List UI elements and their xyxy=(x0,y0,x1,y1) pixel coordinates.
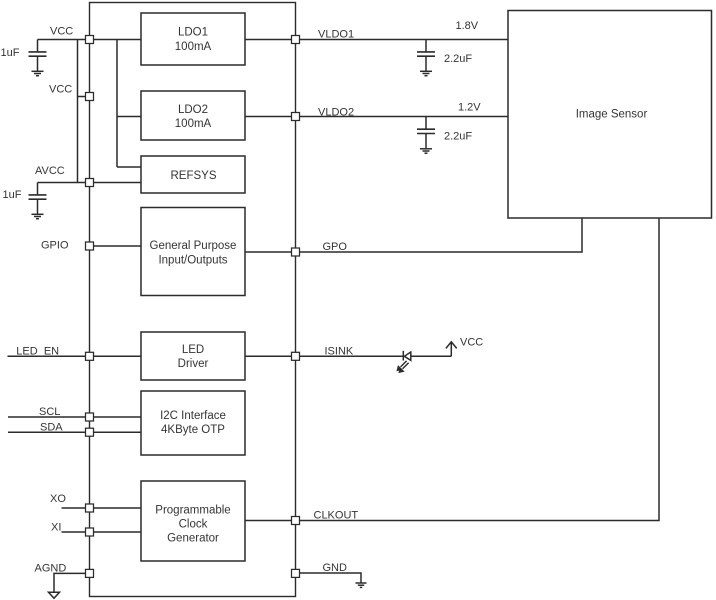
wire AVCC to REFSYS xyxy=(38,182,142,184)
svg-text:1uF: 1uF xyxy=(3,189,22,201)
block LED Driver xyxy=(141,332,245,380)
wire LED anode to VCC xyxy=(411,355,452,357)
net label GPIO xyxy=(41,240,69,252)
label GPIO block text xyxy=(150,240,237,267)
pin VCC2 xyxy=(86,93,94,101)
value label 1uF C1 xyxy=(1,47,20,59)
value label 1.8V xyxy=(456,20,479,32)
svg-text:GPO: GPO xyxy=(323,241,348,253)
svg-text:Clock: Clock xyxy=(179,519,208,531)
svg-text:GPIO: GPIO xyxy=(41,240,69,252)
svg-text:AGND: AGND xyxy=(35,562,67,574)
svg-text:1uF: 1uF xyxy=(1,47,20,59)
net label CLKOUT xyxy=(314,510,359,522)
svg-text:2.2uF: 2.2uF xyxy=(444,131,472,143)
value label 2.2uF C3 xyxy=(444,53,472,65)
block General Purpose Input/Outputs xyxy=(141,208,245,296)
wire VLDO1 net xyxy=(245,39,508,41)
svg-text:100mA: 100mA xyxy=(175,118,212,130)
pin SDA xyxy=(86,428,94,436)
svg-text:Input/Outputs: Input/Outputs xyxy=(158,255,227,267)
value label 1.2V xyxy=(458,102,481,114)
label REFSYS text xyxy=(170,170,216,182)
svg-text:4KByte OTP: 4KByte OTP xyxy=(161,424,225,436)
pin VLDO2 xyxy=(292,113,300,121)
capacitor C2 1uF on AVCC xyxy=(29,183,47,219)
net label AGND xyxy=(35,562,67,574)
pin GPIO xyxy=(86,242,94,250)
IC boundary U1 xyxy=(90,3,296,597)
block Image Sensor xyxy=(508,11,712,219)
pin VLDO1 xyxy=(292,36,300,44)
svg-text:2.2uF: 2.2uF xyxy=(444,53,472,65)
net label ISINK xyxy=(325,345,354,357)
net label SCL xyxy=(39,406,60,418)
svg-text:1.8V: 1.8V xyxy=(456,20,479,32)
ground arrow AGND xyxy=(49,592,60,598)
svg-text:XI: XI xyxy=(51,522,61,534)
capacitor C1 1uF on VCC xyxy=(29,40,47,76)
label Image Sensor text xyxy=(576,109,648,121)
value label 1uF C2 xyxy=(3,189,22,201)
svg-text:I2C Interface: I2C Interface xyxy=(160,410,226,422)
pin LED_EN xyxy=(86,352,94,360)
pin GPO xyxy=(292,248,300,256)
pin XI xyxy=(86,528,94,536)
wire SDA xyxy=(8,431,141,433)
wire VCC to LDO1 xyxy=(38,39,142,41)
block I2C Interface 4KByte OTP xyxy=(141,391,245,455)
svg-text:Image Sensor: Image Sensor xyxy=(576,109,648,121)
svg-text:VLDO2: VLDO2 xyxy=(318,106,354,118)
capacitor C3 2.2uF on VLDO1 xyxy=(417,40,435,76)
wire XO xyxy=(62,507,142,509)
pin XO xyxy=(86,504,94,512)
svg-text:VLDO1: VLDO1 xyxy=(318,29,354,41)
net label LED_EN xyxy=(16,345,59,357)
net label GPO xyxy=(323,241,348,253)
svg-text:General Purpose: General Purpose xyxy=(150,240,237,252)
net label SDA xyxy=(40,422,63,434)
value label 2.2uF C4 xyxy=(444,131,472,143)
wire ISINK to LED xyxy=(245,355,403,357)
ground symbol GND xyxy=(356,583,367,587)
net label XI xyxy=(51,522,61,534)
net label VCC xyxy=(50,26,73,38)
pin GND xyxy=(292,569,300,577)
svg-text:Driver: Driver xyxy=(178,358,209,370)
net label VLDO2 xyxy=(318,106,354,118)
svg-text:1.2V: 1.2V xyxy=(458,102,481,114)
power VCC arrow at LED xyxy=(446,342,457,357)
svg-text:LDO2: LDO2 xyxy=(178,104,208,116)
svg-text:LED: LED xyxy=(182,344,204,356)
wire XI xyxy=(62,531,142,533)
block REFSYS xyxy=(141,156,245,193)
svg-text:REFSYS: REFSYS xyxy=(170,170,216,182)
svg-text:VCC: VCC xyxy=(49,84,72,96)
pin CLKOUT xyxy=(292,517,300,525)
wire VLDO2 net xyxy=(245,116,508,118)
net label AVCC xyxy=(35,165,65,177)
svg-text:XO: XO xyxy=(50,493,66,505)
net label VCC at LED xyxy=(460,337,483,349)
svg-text:Generator: Generator xyxy=(167,533,219,545)
block LDO1 xyxy=(141,13,245,65)
wire VCC2 stub xyxy=(78,96,90,98)
net label GND xyxy=(323,562,348,574)
wire LED_EN xyxy=(8,355,142,357)
svg-text:SDA: SDA xyxy=(40,422,63,434)
wire GND xyxy=(296,573,362,583)
svg-text:VCC: VCC xyxy=(50,26,73,38)
pin AGND xyxy=(86,569,94,577)
wire GPO net xyxy=(245,218,582,252)
pin SCL xyxy=(86,413,94,421)
capacitor C4 2.2uF on VLDO2 xyxy=(417,117,435,154)
wire CLKOUT net xyxy=(245,218,659,521)
svg-text:SCL: SCL xyxy=(39,406,60,418)
wire GPIO input xyxy=(90,245,142,247)
pin VCC xyxy=(86,36,94,44)
block Programmable Clock Generator xyxy=(141,481,245,561)
wire SCL xyxy=(8,416,141,418)
net label VLDO1 xyxy=(318,29,354,41)
net label VCC2 xyxy=(49,84,72,96)
net label XO xyxy=(50,493,66,505)
wire REFSYS input xyxy=(117,166,141,168)
pin ISINK xyxy=(292,352,300,360)
pin AVCC xyxy=(86,179,94,187)
label LED Driver text xyxy=(178,344,209,370)
svg-text:CLKOUT: CLKOUT xyxy=(314,510,359,522)
wire external VCC rail xyxy=(77,40,79,183)
svg-text:AVCC: AVCC xyxy=(35,165,65,177)
block LDO2 xyxy=(141,91,245,140)
LED D1 xyxy=(396,351,410,373)
svg-text:ISINK: ISINK xyxy=(325,345,354,357)
label LDO1 text xyxy=(175,27,212,53)
label LDO2 text xyxy=(175,104,212,130)
svg-text:Programmable: Programmable xyxy=(155,505,230,517)
svg-text:VCC: VCC xyxy=(460,337,483,349)
svg-text:GND: GND xyxy=(323,562,348,574)
svg-text:100mA: 100mA xyxy=(175,41,212,53)
wire internal VCC rail xyxy=(116,40,118,168)
wire LDO2 input xyxy=(117,116,141,118)
wire AGND xyxy=(54,573,90,591)
svg-text:LDO1: LDO1 xyxy=(178,27,208,39)
label clock block text xyxy=(155,505,230,545)
svg-text:LED_EN: LED_EN xyxy=(16,345,59,357)
label I2C text xyxy=(160,410,226,436)
